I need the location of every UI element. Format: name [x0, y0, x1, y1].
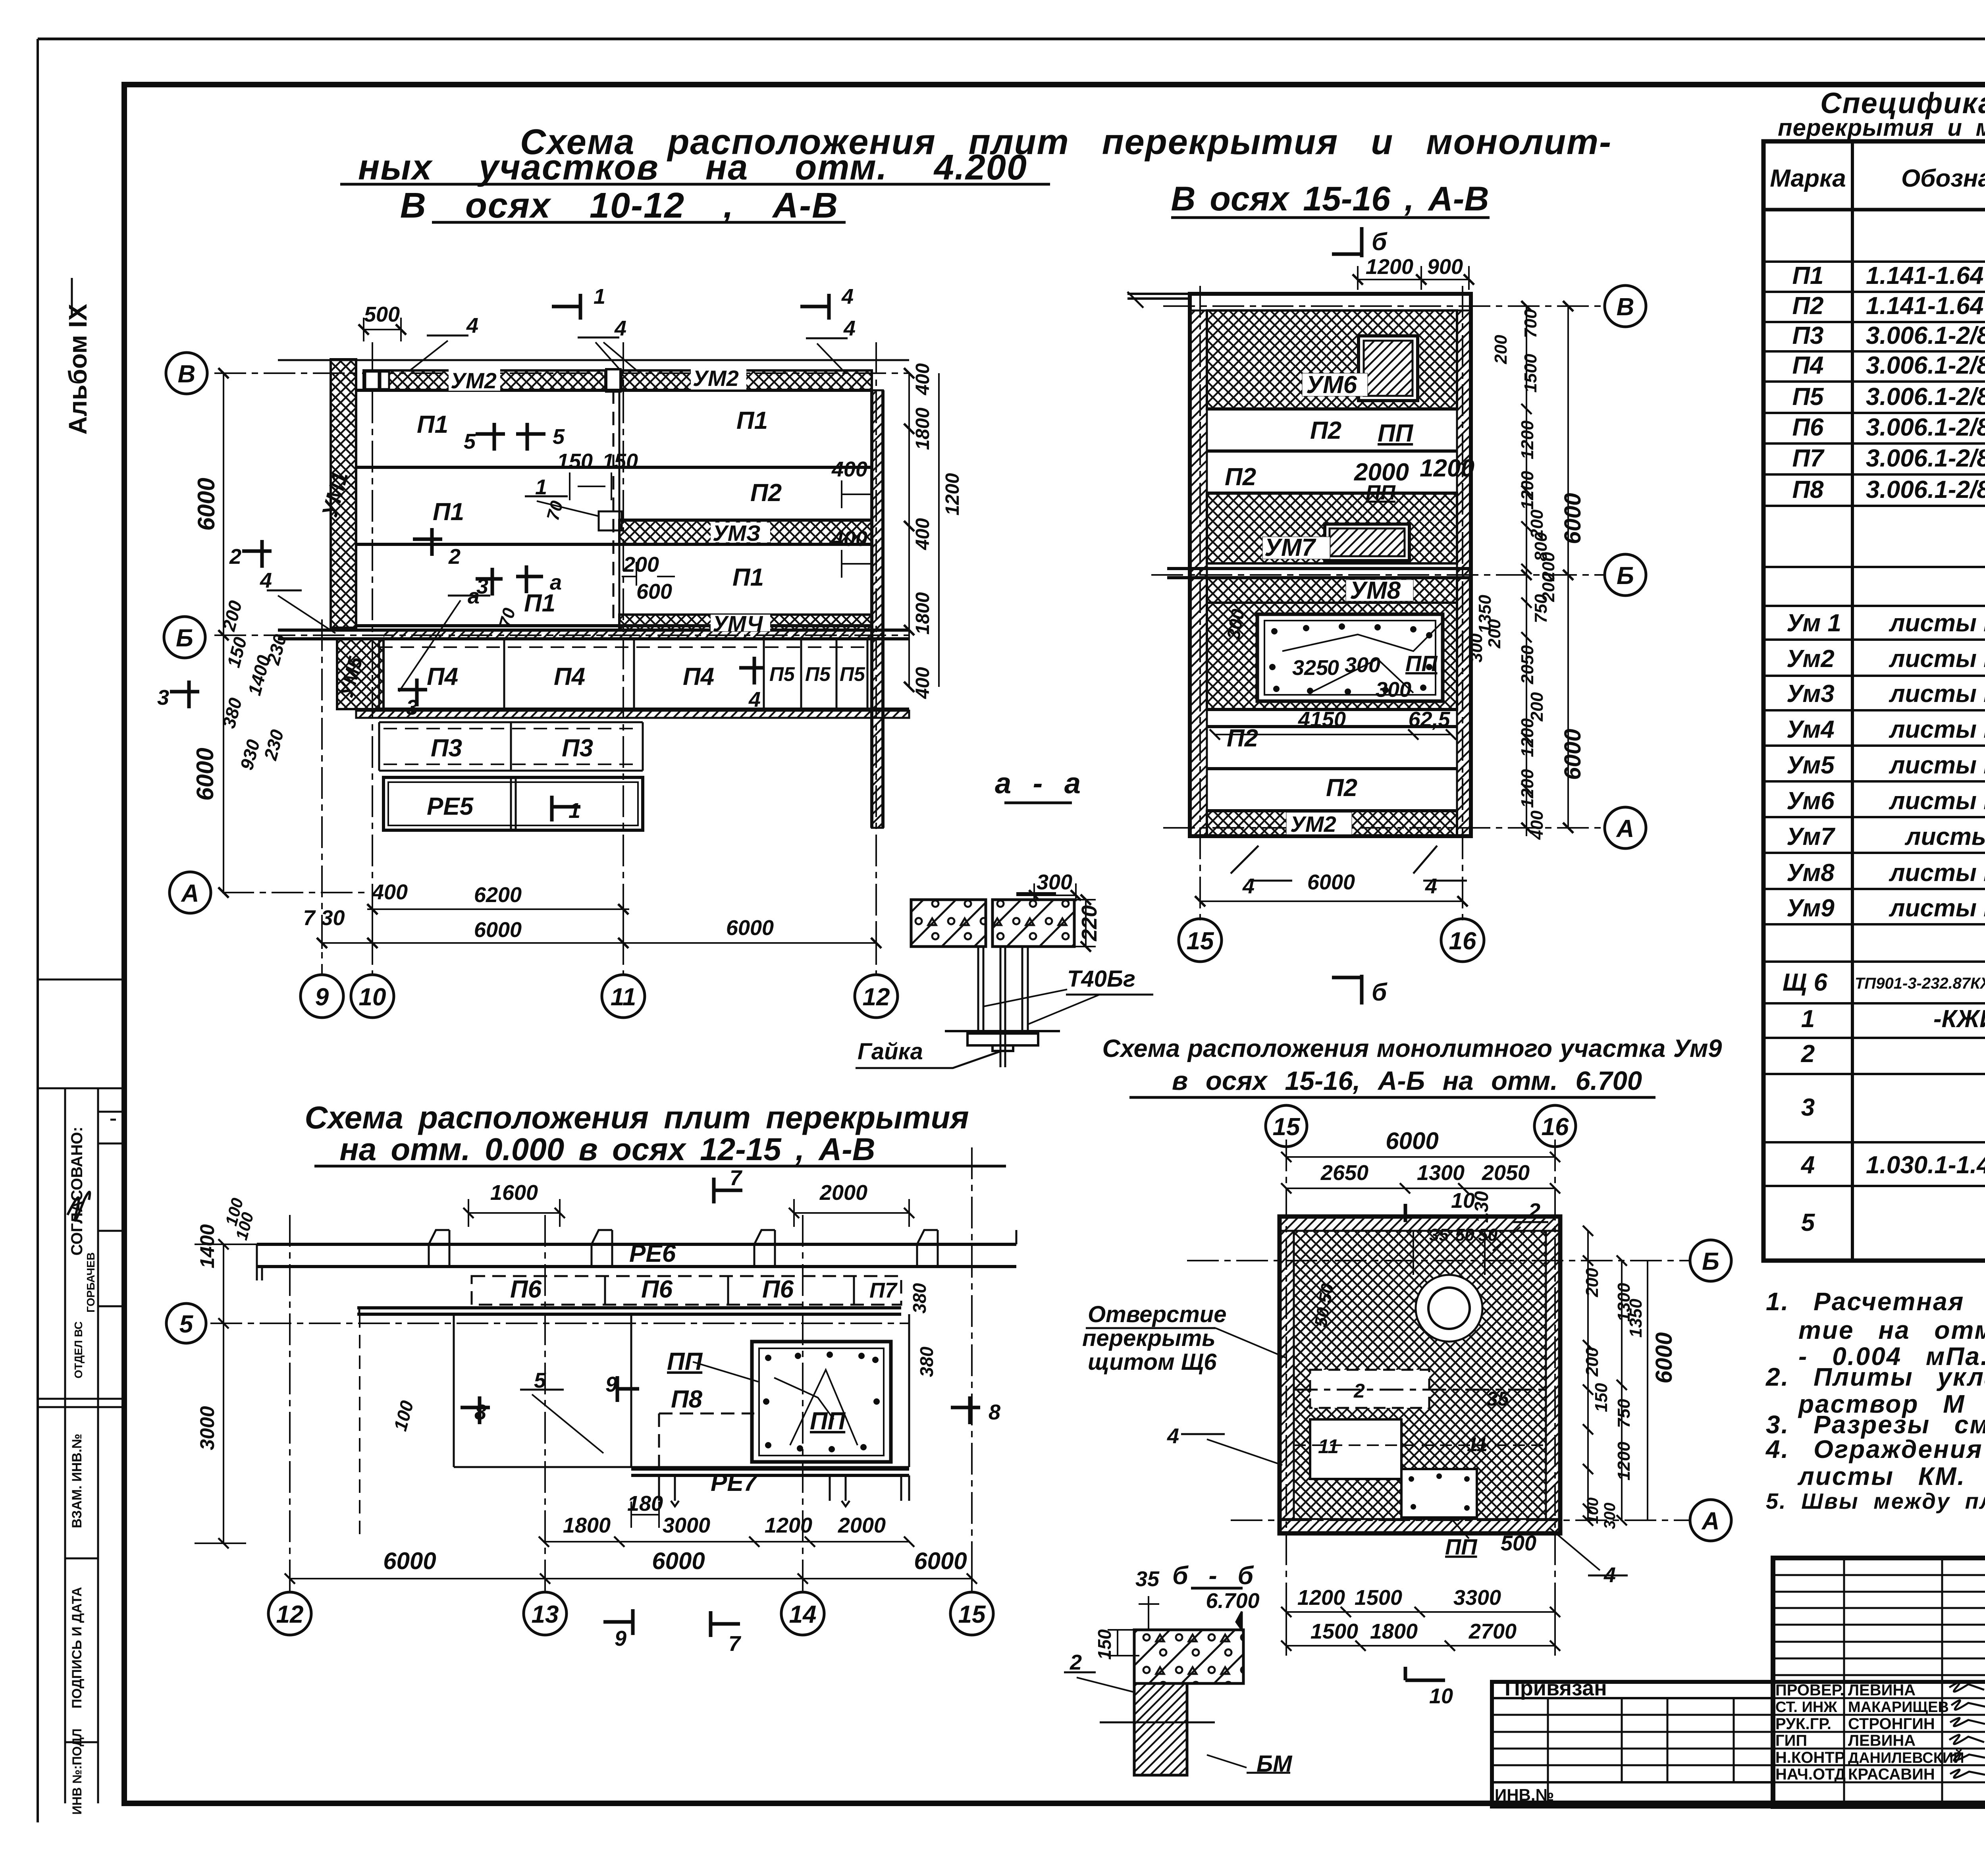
svg-text:200: 200	[623, 553, 659, 576]
svg-text:ПП: ПП	[667, 1348, 703, 1375]
svg-text:листы КМ.: листы КМ.	[1797, 1462, 1966, 1490]
svg-text:6.700: 6.700	[1206, 1589, 1259, 1613]
svg-text:П1: П1	[433, 498, 464, 526]
svg-text:Ум5: Ум5	[1786, 752, 1835, 779]
svg-text:П5: П5	[805, 663, 831, 685]
svg-text:3: 3	[476, 575, 488, 598]
svg-text:62,5: 62,5	[1408, 708, 1450, 731]
svg-text:11: 11	[611, 983, 636, 1011]
svg-text:листы КЖ23÷ 28: листы КЖ23÷ 28	[1889, 787, 1985, 815]
svg-text:П1: П1	[732, 564, 764, 591]
svg-text:листы КЖ23÷28: листы КЖ23÷28	[1889, 895, 1985, 922]
svg-text:3.006.1-2/82.1-2-2.0: 3.006.1-2/82.1-2-2.0	[1866, 414, 1985, 441]
svg-text:2: 2	[1801, 1040, 1815, 1068]
svg-text:1800: 1800	[912, 592, 933, 634]
svg-text:Ум2: Ум2	[1786, 645, 1835, 673]
svg-text:П4: П4	[427, 663, 458, 690]
svg-text:1200: 1200	[1297, 1586, 1345, 1610]
svg-text:300: 300	[1345, 653, 1380, 677]
svg-text:Ум6: Ум6	[1786, 787, 1835, 815]
svg-text:16: 16	[1449, 927, 1476, 955]
svg-text:1200: 1200	[1518, 718, 1537, 757]
svg-text:750: 750	[1531, 594, 1551, 623]
svg-text:б: б	[1372, 979, 1388, 1006]
svg-text:2: 2	[1528, 1199, 1540, 1223]
svg-text:УМЧ: УМЧ	[713, 611, 763, 636]
svg-text:3.006.1-2/82.1-2-2.0: 3.006.1-2/82.1-2-2.0	[1866, 476, 1985, 503]
svg-text:6000: 6000	[193, 478, 220, 530]
svg-text:ных участков на отм. 4.200: ных участков на отм. 4.200	[358, 148, 1027, 187]
svg-text:5: 5	[464, 430, 476, 453]
svg-text:100: 100	[1584, 1498, 1601, 1524]
svg-text:400: 400	[372, 880, 408, 904]
svg-text:200: 200	[1582, 1268, 1602, 1298]
svg-text:5: 5	[553, 425, 565, 449]
svg-text:1200: 1200	[942, 473, 963, 515]
svg-text:6000: 6000	[652, 1548, 705, 1574]
svg-text:ПП: ПП	[1445, 1534, 1478, 1559]
svg-text:1200: 1200	[1518, 769, 1537, 808]
svg-text:А: А	[1616, 815, 1634, 843]
svg-text:a: a	[550, 571, 562, 594]
svg-text:П2: П2	[1227, 725, 1258, 752]
svg-text:4: 4	[1167, 1424, 1179, 1448]
svg-text:4: 4	[1242, 874, 1255, 898]
svg-text:Обозначение: Обозначение	[1901, 165, 1985, 192]
svg-text:5: 5	[1801, 1209, 1815, 1236]
svg-text:6000: 6000	[383, 1548, 436, 1574]
svg-text:БМ: БМ	[1257, 1751, 1293, 1777]
svg-text:П6: П6	[1792, 414, 1824, 441]
svg-text:УМ7: УМ7	[1264, 534, 1316, 561]
svg-text:2050: 2050	[1518, 645, 1537, 684]
svg-text:200: 200	[1485, 619, 1504, 649]
svg-text:листы КЖ23÷28: листы КЖ23÷28	[1889, 716, 1985, 743]
svg-text:ПП: ПП	[1378, 420, 1414, 447]
svg-text:Ум 1: Ум 1	[1786, 609, 1841, 637]
svg-text:1: 1	[594, 285, 605, 308]
svg-text:380: 380	[909, 1283, 930, 1313]
svg-text:13: 13	[532, 1601, 559, 1628]
svg-text:1800: 1800	[563, 1514, 611, 1537]
svg-text:16: 16	[1542, 1113, 1569, 1141]
svg-text:8: 8	[474, 1400, 486, 1424]
svg-text:1: 1	[1801, 1005, 1815, 1033]
svg-text:А: А	[1701, 1508, 1720, 1535]
svg-text:Ум9: Ум9	[1786, 895, 1835, 922]
svg-text:НАЧ.ОТД: НАЧ.ОТД	[1775, 1766, 1846, 1783]
svg-text:1: 1	[535, 475, 547, 499]
svg-text:300: 300	[1037, 870, 1072, 894]
svg-text:4: 4	[843, 316, 856, 340]
svg-text:ЛЕВИНА: ЛЕВИНА	[1848, 1732, 1916, 1749]
svg-text:150: 150	[1592, 1383, 1611, 1412]
svg-text:ИНВ.№: ИНВ.№	[1495, 1785, 1554, 1804]
svg-text:400: 400	[912, 667, 933, 699]
svg-text:150: 150	[1094, 1629, 1115, 1660]
svg-text:П2: П2	[1225, 463, 1256, 491]
svg-text:П4: П4	[554, 663, 585, 690]
svg-text:1200: 1200	[1518, 471, 1537, 510]
svg-text:перекрытия и монолитных участк: перекрытия и монолитных участков на отм.…	[1778, 114, 1985, 141]
svg-text:УМ2: УМ2	[451, 368, 497, 393]
svg-text:1200: 1200	[1614, 1442, 1634, 1481]
svg-text:200: 200	[1491, 335, 1511, 364]
svg-text:Схема расположения плит перекр: Схема расположения плит перекрытия	[304, 1100, 969, 1135]
svg-text:ПОДПИСЬ И ДАТА: ПОДПИСЬ И ДАТА	[69, 1587, 85, 1708]
svg-text:3: 3	[1801, 1094, 1815, 1121]
svg-text:Альбом IX: Альбом IX	[64, 304, 92, 435]
svg-text:6000: 6000	[1651, 1332, 1677, 1383]
svg-text:Привязан: Привязан	[1505, 1676, 1607, 1700]
svg-text:листы КЖ23÷28: листы КЖ23÷28	[1889, 645, 1985, 673]
svg-text:в осях 15-16, А-Б на отм. 6.: в осях 15-16, А-Б на отм. 6.700	[1172, 1066, 1642, 1096]
svg-text:7: 7	[730, 1166, 743, 1190]
svg-text:325: 325	[1292, 656, 1328, 680]
svg-text:2650: 2650	[1320, 1161, 1368, 1185]
svg-text:220: 220	[1077, 905, 1101, 941]
svg-text:9: 9	[315, 983, 329, 1011]
svg-text:12: 12	[276, 1601, 304, 1628]
svg-text:12: 12	[863, 983, 890, 1011]
svg-text:УМЗ: УМЗ	[713, 521, 761, 546]
svg-text:4: 4	[466, 314, 478, 337]
svg-text:200: 200	[1582, 1347, 1602, 1377]
svg-text:УМ2: УМ2	[1290, 812, 1336, 837]
svg-text:1200: 1200	[1518, 420, 1537, 459]
svg-text:2: 2	[1070, 1650, 1082, 1674]
svg-text:листы КЖ23÷28: листы КЖ23÷28	[1889, 752, 1985, 779]
svg-text:15: 15	[1273, 1113, 1301, 1141]
svg-text:ИНВ №:ПОДЛ: ИНВ №:ПОДЛ	[70, 1728, 84, 1814]
svg-text:380: 380	[916, 1346, 937, 1377]
svg-text:Схема расположения монолитного: Схема расположения монолитного участка У…	[1102, 1035, 1722, 1062]
svg-text:П7: П7	[1792, 445, 1825, 472]
svg-text:8: 8	[989, 1400, 1000, 1424]
svg-text:а - а: а - а	[995, 767, 1081, 800]
svg-text:5: 5	[534, 1369, 546, 1392]
svg-text:Марка: Марка	[1770, 165, 1846, 192]
svg-text:14: 14	[789, 1601, 817, 1628]
svg-text:РЕ6: РЕ6	[629, 1240, 676, 1267]
svg-text:300: 300	[1601, 1503, 1619, 1529]
svg-text:4: 4	[841, 285, 854, 308]
svg-text:РЕ7: РЕ7	[711, 1469, 758, 1496]
svg-text:П7: П7	[869, 1278, 898, 1302]
svg-text:ТП901-3-232.87КЖИ 83.0.0.0-05: ТП901-3-232.87КЖИ 83.0.0.0-05	[1855, 975, 1985, 992]
svg-text:Т40Бг: Т40Бг	[1067, 966, 1135, 992]
svg-text:РУК.ГР.: РУК.ГР.	[1775, 1715, 1831, 1733]
svg-text:400: 400	[912, 518, 933, 550]
svg-text:3.006.1-2/82.1-2-1.0: 3.006.1-2/82.1-2-1.0	[1866, 445, 1985, 472]
svg-text:6000: 6000	[474, 918, 522, 942]
svg-text:б - б: б - б	[1172, 1561, 1255, 1590]
svg-text:В: В	[178, 361, 196, 388]
svg-text:2. Плиты укладывать на цеме: 2. Плиты укладывать на цементнопесчаный	[1765, 1363, 1985, 1391]
svg-text:П6: П6	[641, 1276, 673, 1303]
svg-text:1500: 1500	[1355, 1586, 1402, 1610]
svg-text:6000: 6000	[1560, 729, 1586, 780]
svg-text:900: 900	[1427, 255, 1463, 279]
svg-text:7: 7	[728, 1632, 742, 1656]
svg-text:Ум4: Ум4	[1786, 716, 1835, 743]
svg-text:2000: 2000	[838, 1514, 886, 1537]
svg-text:СТ. ИНЖ: СТ. ИНЖ	[1775, 1699, 1837, 1716]
svg-text:1. Расчетная полезная нагруз: 1. Расчетная полезная нагрузка на перекр…	[1766, 1287, 1985, 1316]
svg-text:4: 4	[260, 569, 272, 592]
svg-text:В: В	[1617, 293, 1634, 321]
svg-text:В осях 10-12 , А-В: В осях 10-12 , А-В	[400, 186, 838, 226]
svg-text:ЛЕВИНА: ЛЕВИНА	[1848, 1681, 1916, 1699]
svg-text:300: 300	[1467, 633, 1486, 663]
svg-text:6000: 6000	[726, 916, 774, 940]
svg-text:4: 4	[1425, 874, 1437, 898]
svg-text:35: 35	[1135, 1567, 1160, 1591]
svg-text:П8: П8	[1792, 476, 1824, 503]
svg-text:3.006.1-2/82.1-2-1.0: 3.006.1-2/82.1-2-1.0	[1866, 383, 1985, 411]
svg-text:35: 35	[1429, 1225, 1449, 1245]
svg-text:15: 15	[958, 1601, 986, 1628]
svg-text:П2: П2	[1792, 292, 1823, 320]
svg-text:ПРОВЕР.: ПРОВЕР.	[1775, 1681, 1844, 1699]
svg-text:б: б	[1372, 228, 1388, 256]
svg-text:П4: П4	[1792, 352, 1823, 379]
svg-text:700: 700	[1521, 309, 1540, 338]
svg-text:П3: П3	[431, 735, 462, 762]
svg-text:1400: 1400	[196, 1224, 218, 1268]
svg-text:1.030.1-1.4-1-110: 1.030.1-1.4-1-110	[1866, 1151, 1985, 1179]
svg-text:П8: П8	[671, 1386, 703, 1413]
svg-text:щитом Щ6: щитом Щ6	[1088, 1349, 1217, 1375]
svg-text:2: 2	[1353, 1380, 1365, 1402]
svg-text:Б: Б	[1617, 562, 1634, 590]
svg-text:7 30: 7 30	[303, 906, 345, 930]
svg-text:2000: 2000	[819, 1181, 867, 1205]
svg-text:КРАСАВИН: КРАСАВИН	[1848, 1766, 1935, 1783]
svg-text:СТРОНГИН: СТРОНГИН	[1848, 1715, 1935, 1733]
svg-text:П1: П1	[417, 411, 448, 438]
svg-text:П6: П6	[762, 1276, 794, 1303]
svg-text:1200: 1200	[765, 1514, 812, 1537]
svg-text:П5: П5	[840, 663, 865, 685]
svg-text:2: 2	[229, 545, 241, 569]
svg-text:П2: П2	[750, 479, 782, 507]
svg-text:750: 750	[1614, 1399, 1634, 1428]
svg-text:35: 35	[1487, 1388, 1509, 1410]
svg-text:УМ6: УМ6	[1306, 371, 1357, 399]
svg-text:130: 130	[1471, 1191, 1492, 1223]
svg-text:3: 3	[157, 686, 169, 710]
svg-text:2: 2	[448, 545, 461, 569]
svg-text:4: 4	[1603, 1563, 1616, 1587]
svg-text:РЕ5: РЕ5	[427, 793, 474, 820]
svg-text:П2: П2	[1310, 417, 1341, 444]
svg-text:3: 3	[406, 696, 418, 719]
svg-text:А: А	[181, 880, 199, 907]
svg-text:на отм. 0.000 в осях 12-15 , А: на отм. 0.000 в осях 12-15 , А-В	[339, 1132, 875, 1167]
svg-text:-КЖИ. 84.0.0.0: -КЖИ. 84.0.0.0	[1933, 1005, 1985, 1033]
svg-text:2700: 2700	[1469, 1620, 1517, 1643]
svg-text:3300: 3300	[1453, 1586, 1501, 1610]
svg-text:9: 9	[605, 1373, 617, 1396]
svg-text:1: 1	[569, 799, 580, 823]
svg-text:3.006.1-2/82 1-2-2.0: 3.006.1-2/82 1-2-2.0	[1866, 322, 1985, 349]
svg-text:СОГЛАСОВАНО:: СОГЛАСОВАНО:	[68, 1127, 86, 1256]
svg-text:6000: 6000	[192, 748, 218, 800]
svg-text:11: 11	[1318, 1435, 1339, 1458]
svg-text:П3: П3	[1792, 322, 1823, 349]
svg-text:400: 400	[1527, 810, 1547, 840]
svg-text:6000: 6000	[1307, 870, 1355, 894]
svg-text:1.141-1.64 100-07: 1.141-1.64 100-07	[1866, 262, 1985, 289]
svg-text:0: 0	[1327, 656, 1339, 680]
svg-text:15: 15	[1187, 927, 1214, 955]
svg-text:листы КЖ23÷28: листы КЖ23÷28	[1889, 859, 1985, 887]
svg-text:400: 400	[831, 527, 867, 551]
svg-text:200: 200	[1527, 692, 1547, 722]
svg-text:600: 600	[636, 580, 672, 603]
svg-text:ДАНИЛЕВСКИЙ: ДАНИЛЕВСКИЙ	[1848, 1749, 1964, 1766]
svg-text:Гайка: Гайка	[858, 1039, 923, 1064]
svg-text:6200: 6200	[474, 883, 522, 907]
svg-text:УМ8: УМ8	[1350, 577, 1401, 604]
svg-text:5. Швы между плитами заделать: 5. Швы между плитами заделать бетоном кл…	[1766, 1488, 1985, 1514]
svg-text:6000: 6000	[914, 1548, 967, 1574]
svg-text:1600: 1600	[490, 1181, 538, 1205]
svg-text:4: 4	[1800, 1151, 1815, 1179]
svg-text:11: 11	[1467, 1433, 1488, 1456]
svg-text:листы КЖ23÷28: листы КЖ23÷28	[1889, 609, 1985, 637]
svg-text:1500: 1500	[1310, 1620, 1358, 1643]
svg-text:300: 300	[1376, 678, 1411, 702]
svg-text:500: 500	[364, 303, 400, 326]
svg-text:ВЗАМ. ИНВ.№: ВЗАМ. ИНВ.№	[69, 1434, 85, 1528]
svg-text:Н.КОНТР: Н.КОНТР	[1775, 1749, 1845, 1766]
svg-text:Б: Б	[176, 625, 193, 652]
svg-text:400: 400	[831, 457, 867, 481]
svg-text:П6: П6	[510, 1276, 542, 1303]
svg-text:П5: П5	[1792, 383, 1824, 411]
svg-text:1800: 1800	[1370, 1620, 1418, 1643]
svg-text:ГИП: ГИП	[1775, 1732, 1807, 1749]
svg-text:ПП: ПП	[1366, 481, 1396, 504]
svg-text:4150: 4150	[1298, 708, 1346, 731]
svg-text:2050: 2050	[1482, 1161, 1530, 1185]
svg-text:П2: П2	[1326, 774, 1357, 802]
svg-text:1350: 1350	[1626, 1299, 1646, 1338]
svg-text:П5: П5	[769, 663, 795, 685]
svg-text:4. Ограждения площадок и ле: 4. Ограждения площадок и лестницы см.	[1765, 1435, 1985, 1463]
svg-text:10: 10	[359, 983, 386, 1011]
svg-text:В осях 15-16 , А-В: В осях 15-16 , А-В	[1171, 180, 1489, 218]
svg-text:Щ 6: Щ 6	[1783, 969, 1828, 996]
svg-text:3000: 3000	[663, 1514, 710, 1537]
svg-text:Ум3: Ум3	[1786, 680, 1835, 708]
svg-text:1.141-1.64 300-07: 1.141-1.64 300-07	[1866, 292, 1985, 320]
svg-text:УМ2: УМ2	[693, 366, 739, 391]
svg-text:10: 10	[1429, 1684, 1453, 1708]
svg-text:П1: П1	[1792, 262, 1823, 289]
svg-text:4: 4	[748, 688, 761, 711]
svg-text:1200: 1200	[1366, 255, 1413, 279]
svg-text:П3: П3	[562, 735, 593, 762]
svg-text:500: 500	[1501, 1531, 1536, 1555]
svg-text:3.006.1-2/82.1-2-2.0: 3.006.1-2/82.1-2-2.0	[1866, 352, 1985, 379]
svg-text:перекрыть: перекрыть	[1082, 1325, 1216, 1351]
svg-text:50: 50	[1455, 1225, 1474, 1245]
svg-text:ОТДЕЛ ВС: ОТДЕЛ ВС	[72, 1321, 85, 1379]
svg-text:ПП: ПП	[1405, 651, 1438, 676]
svg-text:Ум7: Ум7	[1786, 823, 1835, 850]
svg-text:50: 50	[1478, 1225, 1497, 1245]
svg-text:Отверстие: Отверстие	[1088, 1301, 1226, 1327]
svg-text:тие на отм. 4.200, 0.000.: тие на отм. 4.200, 0.000. и 6,700 -	[1798, 1316, 1985, 1344]
svg-text:листы КЖ23÷28: листы КЖ23÷28	[1904, 823, 1985, 850]
svg-text:1500: 1500	[1521, 354, 1540, 393]
svg-text:4: 4	[614, 316, 626, 340]
svg-text:Ум8: Ум8	[1786, 859, 1835, 887]
svg-text:Б: Б	[1702, 1248, 1719, 1275]
svg-text:400: 400	[912, 363, 933, 395]
svg-text:9: 9	[615, 1627, 626, 1650]
svg-text:5: 5	[179, 1311, 194, 1338]
svg-text:1300: 1300	[1417, 1161, 1465, 1185]
svg-text:1200: 1200	[1420, 455, 1474, 482]
svg-text:180: 180	[627, 1492, 663, 1515]
svg-text:ГОРБАЧЕВ: ГОРБАЧЕВ	[85, 1252, 97, 1313]
svg-text:6000: 6000	[1386, 1128, 1438, 1154]
svg-text:1800: 1800	[912, 407, 933, 450]
svg-text:П4: П4	[683, 663, 714, 690]
svg-text:150: 150	[557, 449, 593, 473]
svg-text:листы КЖ 23÷28: листы КЖ 23÷28	[1889, 680, 1985, 708]
svg-text:150: 150	[602, 449, 638, 473]
svg-text:МАКАРИЩЕВ: МАКАРИЩЕВ	[1848, 1699, 1949, 1716]
svg-text:П1: П1	[736, 407, 768, 434]
svg-text:3000: 3000	[196, 1406, 218, 1450]
svg-text:6000: 6000	[1560, 493, 1586, 544]
